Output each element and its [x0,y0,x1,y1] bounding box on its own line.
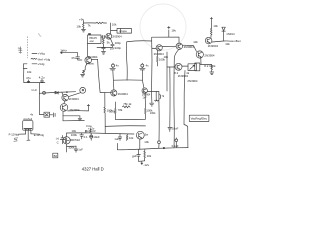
wire bottom left [24,82,45,84]
wire row2 [40,114,45,116]
svg-text:100p: 100p [115,41,122,45]
svg-text:1N914: 1N914 [226,32,235,36]
svg-text:osc: osc [90,39,95,43]
mosfet Q12 IRF510 [63,137,70,144]
box scope label [117,29,132,34]
switch box [44,112,50,117]
wire Q3 to Q5 [183,45,197,51]
wire Q3 collector [178,37,180,43]
svg-text:10k: 10k [147,154,152,158]
wire collector [110,23,112,33]
svg-text:2N3904: 2N3904 [69,108,80,112]
svg-text:B2: B2 [54,154,58,158]
resistor out [144,150,146,161]
svg-text:1kHz: 1kHz [60,49,67,53]
smudge arc (faint circle) [140,4,186,50]
node +9V label [79,17,85,21]
supply +18V [168,26,170,37]
svg-text:w.offset: w.offset [232,39,241,43]
svg-text:75k 1k: 75k 1k [123,102,132,106]
svg-text:1uF: 1uF [114,137,119,141]
svg-text:P-12Vdg: P-12Vdg [9,133,20,137]
transistor Q11 [142,88,147,93]
battery [60,136,65,144]
svg-text:+Vdg: +Vdg [38,52,45,56]
capacitor C2 [102,45,105,51]
hook stub [14,138,18,141]
svg-text:1 Hz: 1 Hz [31,88,37,92]
wire Q9 emitter [62,111,64,120]
svg-text:2N3904: 2N3904 [69,97,79,101]
capacitor C3 100pF [111,44,114,47]
wire offset node [212,41,232,42]
resistor 100k below Q2 [157,51,159,66]
wiper wire down [158,102,160,141]
capacitor 4.7u [40,78,43,82]
svg-text:100p: 100p [115,46,122,50]
ground [81,74,85,77]
transistor Q7 [85,57,92,64]
svg-text:100k: 100k [71,133,78,137]
wire base row [100,91,112,93]
wire to pot2 [147,91,159,102]
wire [50,114,53,116]
emitter resistor A [115,102,117,120]
stray mark [132,156,133,159]
ground [210,72,214,75]
transistor Q2 2N3904 [156,45,162,51]
svg-text:+Vdg: +Vdg [38,62,45,66]
svg-text:10uF: 10uF [93,135,100,139]
wire row [63,115,80,117]
capacitor [78,116,82,121]
svg-text:IRF510: IRF510 [71,138,81,142]
capacitor A2 [80,133,84,139]
test point [175,139,178,142]
capacitor bracket [23,64,27,69]
svg-text:yellow: yellow [86,62,95,66]
svg-text:VacReg/Elec: VacReg/Elec [191,117,208,121]
wire out [92,58,98,60]
relay legs [26,130,31,134]
tap -Vref [31,58,37,59]
long rail A [174,50,179,148]
svg-text:2N3904: 2N3904 [204,53,215,57]
supply + node [87,104,89,111]
cap node B [141,64,144,67]
wire loop top [127,37,179,42]
transistor Q4 2N3904 [175,63,182,70]
capacitor on rail [150,103,154,106]
wire rail left [126,42,129,81]
svg-text:scope: scope [119,29,127,33]
resistor R 10k to ground [83,23,85,29]
diode D1 [222,27,225,41]
wire bottom [97,47,112,49]
emitter and resistor [85,63,87,70]
long rail B [169,67,171,127]
svg-text:washed: washed [23,117,32,121]
transistor Q6 2N3904 [205,37,212,44]
capacitor B2 polar [90,135,93,138]
wire Q2 to Q3 [162,45,176,47]
svg-text:10k: 10k [76,24,81,28]
svg-text:18v: 18v [171,28,176,32]
left dashed line [27,37,29,58]
tap +Vdg 2 [32,63,37,65]
wire down to base [98,59,101,92]
svg-text:2N3904: 2N3904 [208,44,219,48]
capacitor C4 [74,146,78,152]
wire Q4 base [167,66,175,68]
svg-text:0.1uF: 0.1uF [172,144,179,148]
transistor Q5 2N3904 [196,51,203,58]
svg-text:100k: 100k [109,110,116,114]
wire bottom [63,120,84,122]
transistor Q9 [60,104,68,112]
diode D2 [55,91,58,94]
wire feedback [105,125,145,128]
wire to cap [67,145,76,147]
wire +9V stem [83,21,85,23]
resistor 10k [126,134,128,141]
svg-text:10k: 10k [27,70,32,74]
ground [82,29,86,32]
capacitor input [76,53,82,60]
svg-text:10uF: 10uF [172,126,179,130]
bottom bus [117,148,188,150]
lamp [43,92,46,95]
capacitor [54,113,56,117]
wire 1Hz rail [38,83,40,115]
wire Q13 emitter [139,139,141,149]
tiny connector scribble [18,47,22,53]
wire Q2 base [152,48,156,50]
box small [195,63,200,71]
svg-text:2N3904: 2N3904 [187,79,198,83]
resistor +12V [86,129,91,133]
transistor Q3 2N3904 [176,43,182,49]
trimpot 1k [188,64,197,71]
resistor R 7k inline [96,22,107,24]
svg-text:2N3904: 2N3904 [88,55,98,59]
svg-text:10k: 10k [213,24,218,28]
wire 10k column [166,52,168,91]
wire Q4 to pot [182,65,188,67]
mosfet source [66,144,68,152]
transistor Q8 [62,94,69,101]
svg-text:10k: 10k [144,140,149,144]
wire gate top [67,133,135,137]
wire coupling [116,118,146,120]
trimpot box2 [159,94,162,99]
capacitor 47u [27,80,30,83]
svg-text:-Vref +Vdg: -Vref +Vdg [37,57,51,61]
wire top rail [84,22,97,24]
wire signal row [40,92,76,94]
wire left rail [23,69,25,83]
svg-text:2N3904: 2N3904 [112,34,122,38]
stray pencil dots top-left [38,34,41,36]
svg-text:C: C [57,141,59,145]
box VacReg [189,115,209,121]
svg-text:+12v: +12v [88,127,95,131]
wire base [100,36,102,38]
svg-text:100k: 100k [146,109,153,113]
wire stub down [27,135,30,141]
relay box [23,121,33,131]
transistor Q13 [136,131,144,139]
svg-text:3k: 3k [107,40,111,44]
resistor to ground [200,65,213,72]
box U1 oscillator [88,35,102,44]
wire H1 [114,79,142,81]
capacitor out [137,150,141,162]
long rail C [184,71,188,148]
svg-text:4.7u: 4.7u [39,75,45,79]
svg-text:47u: 47u [71,56,76,60]
box B2 [53,153,58,158]
svg-text:47u: 47u [26,76,31,80]
cap node A [112,64,115,67]
ground [102,52,106,55]
svg-text:0.1: 0.1 [84,135,88,139]
capacitor C1 base coupling [101,35,106,38]
wire Q9 collector [68,110,89,112]
svg-text:10k: 10k [193,40,198,44]
tap +Vdg [32,53,37,55]
wire collector from box [87,44,89,57]
supply -12V [139,161,145,165]
svg-text:E-12Vdg: E-12Vdg [34,133,45,137]
svg-text:10k: 10k [129,136,134,140]
capacitor 1uF [118,134,122,141]
lamp node C [80,87,86,93]
supply +V right [210,17,212,28]
svg-text:4327 Hall D: 4327 Hall D [82,167,104,172]
wire Q5 emitter [200,58,202,64]
svg-text:1uF: 1uF [78,148,83,152]
svg-text:2N3904: 2N3904 [118,92,129,96]
resistor bias column [103,39,105,45]
emitter resistor B [145,93,147,119]
wire left drop [116,143,118,149]
resistor 10k rail [210,29,212,38]
wire emitter [110,39,112,44]
title text [82,167,104,172]
wire P-12Vdg [18,133,40,135]
svg-text:10k: 10k [112,23,117,27]
svg-text:10k: 10k [164,55,169,59]
input arrow [60,52,77,54]
svg-text:1nF: 1nF [143,97,148,100]
transistor Q10 [111,90,117,96]
svg-text:78k: 78k [118,108,123,112]
transistor Q1 2N3904 [106,33,112,39]
svg-text:-12v: -12v [143,163,149,167]
resistor 100k column [104,93,106,127]
svg-text:10k: 10k [225,42,230,46]
wire to box [111,30,117,32]
resistor between bases [123,106,131,108]
wire rail mid [151,41,153,103]
